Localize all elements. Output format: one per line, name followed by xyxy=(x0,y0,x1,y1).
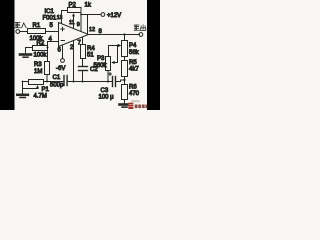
junction wiper node xyxy=(117,45,119,47)
potentiometer P1 xyxy=(29,80,44,85)
potentiometer P3 xyxy=(108,46,110,57)
wire input to R1 xyxy=(20,31,28,33)
resistor R5 xyxy=(124,57,126,61)
svg-text:IC1: IC1 xyxy=(45,9,55,15)
P3 wiper arrow xyxy=(111,61,114,64)
junction pin2/rail xyxy=(73,81,75,83)
svg-text:4k7: 4k7 xyxy=(129,67,139,73)
svg-text:R4: R4 xyxy=(87,46,95,52)
plus input mark xyxy=(61,27,65,31)
svg-text:100k: 100k xyxy=(34,53,48,59)
capacitor C2 xyxy=(79,66,88,68)
svg-text:F001: F001 xyxy=(43,16,57,22)
svg-text:560k: 560k xyxy=(94,63,108,69)
svg-text:9: 9 xyxy=(77,22,80,28)
svg-text:-6V: -6V xyxy=(56,66,65,72)
resistor R1 xyxy=(28,29,46,34)
R4 to C2 lead xyxy=(82,59,84,67)
pin 2 wire down to rail xyxy=(73,41,75,82)
+12V rail wire xyxy=(81,14,101,16)
C2 bottom lead xyxy=(82,71,84,82)
resistor R6 xyxy=(122,85,128,100)
junction P3/rail xyxy=(107,81,109,83)
svg-text:4.7M: 4.7M xyxy=(34,94,47,100)
capacitor C3 xyxy=(112,77,114,87)
minus input mark xyxy=(61,40,64,42)
svg-text:1M: 1M xyxy=(34,69,42,75)
svg-text:P1: P1 xyxy=(42,87,50,93)
P3 wiper drop wire xyxy=(115,46,118,63)
svg-text:13: 13 xyxy=(57,15,63,21)
wire R2 to ground xyxy=(26,48,33,53)
svg-text:P3: P3 xyxy=(97,56,105,62)
ground (R2) xyxy=(20,53,31,56)
feedback node wire to pin 4 xyxy=(48,42,59,62)
svg-text:C3: C3 xyxy=(101,88,109,94)
ground (P1) xyxy=(17,94,28,97)
wire R1 to pin 5 xyxy=(46,31,59,33)
svg-text:1k: 1k xyxy=(85,3,92,9)
potentiometer P2 xyxy=(68,8,82,13)
svg-text:100 μ: 100 μ xyxy=(99,95,115,101)
P3 bottom lead xyxy=(107,71,109,82)
svg-text:56k: 56k xyxy=(129,50,140,56)
junction output node xyxy=(123,33,125,35)
rail wire C1 to C3 xyxy=(68,81,112,83)
P2 wiper arrow to pin 11 xyxy=(73,16,75,29)
label 输入 xyxy=(15,23,26,28)
R4 top lead pin 7 xyxy=(82,38,84,45)
wire R3 to rail xyxy=(46,75,48,82)
svg-text:R6: R6 xyxy=(129,85,137,91)
output terminal xyxy=(139,33,143,37)
op-amp U1 triangle xyxy=(59,23,89,47)
svg-text:51: 51 xyxy=(87,53,94,59)
junction R2 node xyxy=(47,47,49,49)
-6V terminal xyxy=(61,59,65,63)
pin 6 wire to -6V xyxy=(62,46,64,59)
svg-text:R3: R3 xyxy=(34,62,42,68)
resistor R4 xyxy=(81,45,86,59)
P1 wiper arrow xyxy=(23,88,38,90)
rail wire P1/R3 to C1 xyxy=(44,81,64,83)
svg-text:11: 11 xyxy=(69,20,75,26)
junction R3/rail xyxy=(46,81,48,83)
R6 bottom lead xyxy=(124,100,126,104)
+12V terminal xyxy=(101,13,105,17)
wire C3 to R5/R6 node xyxy=(116,80,124,82)
svg-text:C1: C1 xyxy=(53,75,61,81)
svg-text:R2: R2 xyxy=(37,41,45,47)
junction C2/rail xyxy=(82,81,84,83)
svg-text:P4: P4 xyxy=(129,43,137,49)
ground (R6) xyxy=(120,103,130,106)
P2 right lead / pin 9 wire xyxy=(80,11,82,32)
P4 wiper arrow wire xyxy=(109,45,119,47)
svg-text:P2: P2 xyxy=(69,3,77,9)
capacitor C1 xyxy=(63,76,65,86)
junction R5/R6 xyxy=(124,77,126,85)
C3 plus mark xyxy=(109,73,112,76)
resistor R3 xyxy=(45,62,50,75)
resistor R2 xyxy=(33,46,48,51)
svg-text:R1: R1 xyxy=(33,23,41,29)
junction P2/+12V xyxy=(80,14,82,16)
output wire pin 8 xyxy=(89,34,140,36)
watermark red text xyxy=(128,100,147,109)
svg-text:+12V: +12V xyxy=(107,13,121,19)
svg-text:12: 12 xyxy=(89,27,95,33)
svg-text:470: 470 xyxy=(129,91,140,97)
svg-text:R5: R5 xyxy=(129,60,137,66)
potentiometer P4 xyxy=(124,35,126,41)
P2 left lead to pin 13 xyxy=(62,11,68,24)
wire P1 to ground xyxy=(23,82,29,95)
input terminal 输入 xyxy=(16,30,20,34)
svg-text:500p: 500p xyxy=(50,83,64,89)
label 输出 xyxy=(134,25,146,31)
junction P1 left xyxy=(22,81,24,83)
pin 12 wire xyxy=(87,15,89,35)
